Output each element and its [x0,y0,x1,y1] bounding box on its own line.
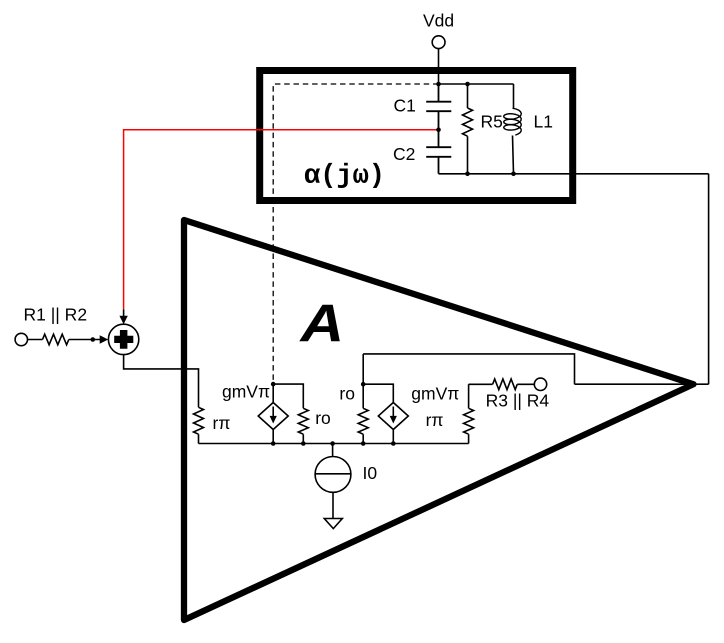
resistor R5 [463,84,473,174]
node dot L1 bottom [511,172,516,177]
svg-text:A: A [298,295,344,354]
resistor rpi2 [464,384,474,443]
node dot diamond2 bottom [391,441,396,446]
resistor ro1 [298,408,308,443]
summing junction [108,324,138,354]
capacitor C1 [426,84,451,130]
wire feedback right vertical [708,174,710,384]
bottom rail [199,443,469,445]
current source gmVpi2 diamond [378,403,408,430]
svg-text:ro: ro [339,384,355,404]
wire L1 top lead [513,84,515,108]
node dot Vdd [436,82,441,87]
node dot diamond1 bottom [271,441,276,446]
ground [324,519,342,529]
amplifier triangle A [184,220,694,620]
node dot I0 top [330,441,335,446]
resistor R3R4 [469,379,535,390]
svg-text:gmVπ: gmVπ [222,381,270,401]
plus sign in summer [114,330,133,349]
resistor ro2 [358,408,368,443]
arrow into summer left [100,335,109,343]
svg-text:I0: I0 [363,463,378,483]
svg-text:α(jω): α(jω) [304,162,385,192]
capacitor C2 [426,130,451,174]
svg-text:R1 || R2: R1 || R2 [24,305,88,325]
node dot ro2 bottom [361,441,366,446]
svg-text:ro: ro [315,408,331,428]
Vdd terminal [432,36,445,49]
node dot stage2 [361,382,366,387]
output terminal circle [534,378,546,390]
node dot R5 bottom [465,172,470,177]
wire stage2 to diamond2 [363,384,393,402]
svg-text:rπ: rπ [213,413,231,433]
node dot red [436,127,441,132]
wire red feedback [124,130,439,310]
resistor rpi1 [194,407,204,443]
wire top node horizontal [439,83,514,85]
node dot ro1 bottom [301,441,306,446]
node dot stage1 [271,382,276,387]
current source gmVpi1 diamond [258,403,288,430]
wire Vdd to node [438,49,440,84]
wire I0 to ground [332,492,334,518]
wire arrow into summer top [123,309,125,317]
inductor L1 [504,108,522,135]
svg-text:gmVπ: gmVπ [411,384,459,404]
arrow inside diamond1 [272,407,274,418]
svg-text:L1: L1 [534,112,553,132]
wire diamond1 bottom [272,430,274,444]
wire stage2 vertical from output wire [362,354,364,408]
node dot input [91,337,96,342]
input terminal circle [15,333,27,345]
svg-text:R3 || R4: R3 || R4 [486,391,550,411]
wire L1 bottom lead [513,136,514,174]
dashed control line [273,84,438,381]
current source I0 circle [315,457,351,493]
feedback box alpha(jw) [260,71,573,201]
current source I0 [332,444,334,457]
wire stage1 top [273,384,303,408]
wire summer to rpi1 [124,355,199,408]
node dot R5 top [465,82,470,87]
arrow inside diamond2 [392,407,394,418]
svg-text:R5: R5 [481,112,503,132]
wire network bottom rail [439,173,709,175]
svg-text:C2: C2 [393,144,415,164]
wire output tip horizontal [575,383,709,385]
wire internal output [363,354,574,384]
resistor R1R2 [28,334,101,345]
svg-text:C1: C1 [394,96,416,116]
svg-text:rπ: rπ [426,410,444,430]
svg-text:Vdd: Vdd [423,11,454,31]
wire diamond2 bottom [392,430,394,444]
